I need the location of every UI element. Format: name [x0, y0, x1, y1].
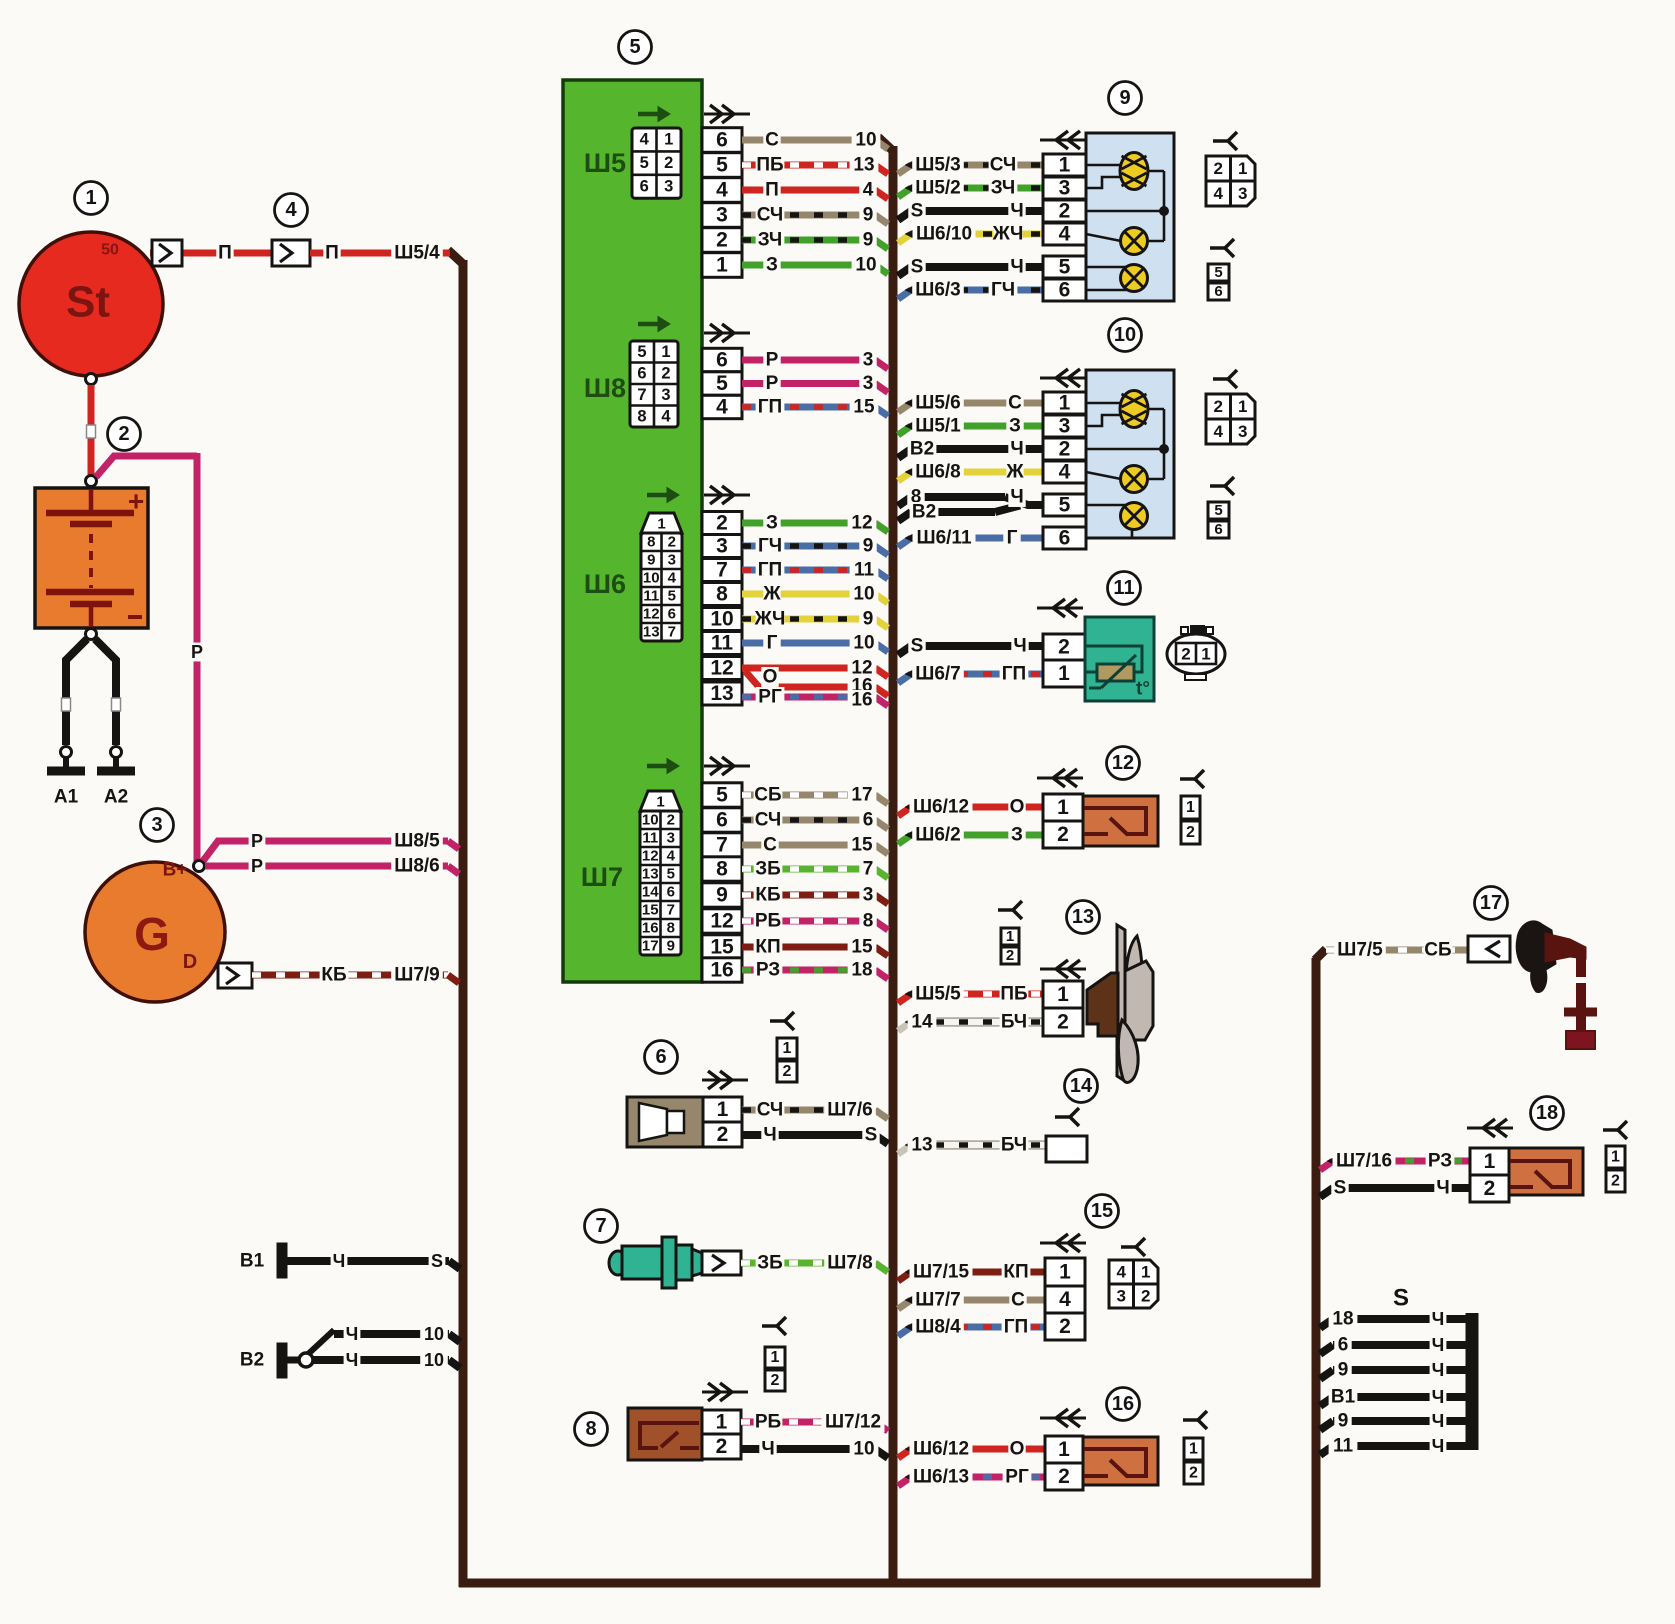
svg-text:РГ: РГ	[1005, 1467, 1029, 1488]
svg-text:РБ: РБ	[755, 911, 781, 932]
label З on wire	[763, 513, 780, 533]
svg-text:3: 3	[863, 373, 874, 394]
label S on wire	[908, 257, 925, 277]
svg-text:ЗБ: ЗБ	[755, 859, 781, 880]
svg-text:3: 3	[1059, 177, 1071, 200]
ground terminal A2	[111, 747, 122, 758]
svg-text:А2: А2	[104, 787, 128, 808]
svg-text:+: +	[128, 486, 144, 517]
label S on wire	[908, 636, 925, 656]
svg-text:2: 2	[1057, 823, 1069, 846]
label Ч on wire	[759, 1439, 776, 1459]
svg-text:ЖЧ: ЖЧ	[992, 224, 1024, 245]
connector 1/2 box right of relay 12	[1181, 796, 1200, 819]
wire Ш5/3 trunk to headlamp 9 pin 1	[898, 165, 911, 174]
label 9 wire number	[859, 205, 876, 225]
svg-text:Г: Г	[1007, 528, 1018, 549]
pin temp sensor pin 2	[1043, 634, 1085, 660]
wire 6 right trunk to S block (black)	[1320, 1345, 1333, 1354]
svg-text:1: 1	[1201, 645, 1210, 664]
label СЧ on wire	[756, 1100, 785, 1120]
svg-text:S: S	[1334, 1178, 1347, 1199]
label circle 6	[645, 1041, 678, 1074]
svg-text:6: 6	[716, 349, 728, 372]
svg-text:Ш5/6: Ш5/6	[915, 393, 961, 414]
label Ш8/6	[391, 856, 443, 876]
label Ш7/8 on wire	[824, 1253, 876, 1273]
label 10 wire number	[852, 130, 881, 150]
label Ш5/6 on wire	[912, 393, 964, 413]
wire З from ECU Ш6 pin 2 to trunk	[742, 520, 875, 527]
svg-text:В1: В1	[240, 1251, 265, 1272]
pin Ш6 ecu-side 13 box	[702, 682, 742, 705]
wire Ш5/5 trunk to fan pin 1 (red/white)	[898, 994, 911, 1003]
svg-text:7: 7	[667, 902, 675, 919]
label S on wire	[862, 1125, 879, 1145]
label 3 wire number	[859, 885, 876, 905]
svg-text:14: 14	[642, 884, 659, 901]
headlamp bulb 2 (component 10)	[1121, 466, 1148, 493]
label circle 13	[1067, 901, 1100, 934]
label circle 18	[1531, 1097, 1564, 1130]
connector on generator D output	[218, 963, 252, 988]
label З colour code	[1006, 416, 1023, 436]
svg-text:КБ: КБ	[321, 965, 346, 986]
pin fan pin 1	[1043, 981, 1083, 1008]
label РГ on wire	[756, 687, 785, 707]
svg-text:St: St	[66, 278, 110, 327]
wire Ш6/3 trunk to headlamp 9 pin 6	[898, 290, 911, 299]
fork connector above component 6	[770, 1019, 785, 1023]
label БЧ colour code	[1000, 1135, 1029, 1155]
svg-text:Ч: Ч	[333, 1251, 346, 1271]
label 7 wire number	[859, 859, 876, 879]
svg-text:2: 2	[783, 1063, 792, 1080]
svg-text:4: 4	[667, 848, 676, 865]
wire Ш5/6 trunk to headlamp 10 pin 1	[898, 403, 911, 412]
svg-text:Ч: Ч	[761, 1439, 774, 1460]
wire Р from ECU Ш8 pin 5 to trunk	[742, 380, 875, 387]
connector Ш8 pin grid	[638, 322, 662, 327]
label РБ on wire	[754, 1412, 783, 1432]
pin fan pin 2	[1043, 1008, 1083, 1036]
label Ш6/7 on wire	[912, 664, 964, 684]
headlamp bulb 3 (component 9)	[1121, 265, 1148, 292]
svg-text:3: 3	[661, 386, 670, 404]
svg-text:6: 6	[716, 129, 728, 152]
label circle 17	[1475, 887, 1508, 920]
svg-text:3: 3	[863, 350, 874, 371]
pin headlamp 9 pin 2	[1043, 200, 1086, 222]
svg-text:ГП: ГП	[1002, 664, 1026, 685]
label 13 on wire	[908, 1135, 937, 1155]
svg-text:5: 5	[1214, 264, 1222, 281]
spark plug 17 (maroon)	[1545, 933, 1586, 962]
svg-text:S: S	[865, 1125, 878, 1146]
svg-text:Ш8/5: Ш8/5	[394, 831, 440, 852]
wire ЖЧ from ECU Ш6 pin 10 to trunk	[742, 616, 875, 623]
svg-text:2: 2	[1058, 636, 1070, 659]
label П on wire (right)	[323, 243, 340, 263]
terminal B1 (black bar)	[277, 1243, 287, 1278]
label О colour code	[1008, 797, 1025, 817]
svg-text:5: 5	[1059, 494, 1071, 517]
label 8 on wire	[907, 487, 924, 507]
label Ч on B2 lower wire	[344, 1351, 361, 1370]
wire П from ECU Ш5 pin 4 to trunk	[742, 187, 875, 194]
wire РБ component 8 pin1 to Ш7/12	[741, 1419, 875, 1426]
wire Ш7/7 trunk to 15 pin 4 (taupe)	[898, 1300, 911, 1309]
component 14 box (empty connector)	[1046, 1136, 1087, 1162]
label О on wire	[761, 667, 778, 687]
svg-text:1: 1	[1057, 796, 1069, 819]
label ПБ colour code	[1000, 984, 1029, 1004]
wire Ш6/7 trunk to temp sensor pin 1 (blue/red)	[898, 674, 911, 683]
label 9 wire number	[859, 230, 876, 250]
connector 1/2 box above component 8	[765, 1347, 785, 1368]
wire 50 output of starter to fuse (red)	[150, 250, 272, 257]
connector Ш5 pin grid	[638, 112, 662, 117]
headlamp bulb 3 (component 10)	[1121, 503, 1148, 530]
wire Ч B2 upper to 10 on trunk (black)	[334, 1330, 449, 1338]
svg-text:1: 1	[1006, 928, 1014, 945]
label ЗБ on wire	[754, 859, 783, 879]
svg-text:11: 11	[1113, 577, 1134, 599]
svg-text:БЧ: БЧ	[1001, 1135, 1027, 1156]
label Ч colour code (18)	[1434, 1178, 1451, 1198]
svg-text:Ж: Ж	[762, 584, 781, 605]
svg-text:9: 9	[863, 609, 874, 630]
svg-text:4: 4	[1117, 1263, 1127, 1282]
svg-text:9: 9	[716, 884, 728, 907]
svg-text:3: 3	[151, 814, 162, 836]
pin relay 12 pin 2	[1043, 821, 1083, 848]
label Р on wire	[763, 374, 780, 394]
double arrow component 18	[1467, 1127, 1513, 1130]
connector Ш7 pin grid	[647, 764, 671, 769]
wire ЗБ from ECU Ш7 pin 8 to trunk	[742, 866, 875, 873]
pin Ш5 ecu-side 3 box	[702, 203, 742, 228]
pin Ш6 ecu-side 7 box	[702, 559, 742, 582]
svg-text:Ш6: Ш6	[584, 569, 626, 599]
label Г colour code	[1003, 528, 1020, 548]
svg-text:5: 5	[1059, 256, 1071, 279]
buzzer 6 body	[627, 1097, 703, 1147]
svg-text:3: 3	[863, 885, 874, 906]
svg-text:ПБ: ПБ	[1000, 984, 1027, 1005]
svg-text:1: 1	[85, 187, 96, 209]
svg-text:2: 2	[1484, 1177, 1496, 1200]
connector Ш6 pin grid	[647, 493, 671, 498]
wire В2 trunk to headlamp 10 pin 5 (black merge)	[898, 512, 911, 521]
svg-text:БЧ: БЧ	[1001, 1012, 1027, 1033]
svg-text:4: 4	[1059, 461, 1071, 484]
svg-text:О: О	[1010, 797, 1025, 818]
svg-text:Ш6/2: Ш6/2	[915, 825, 961, 846]
svg-text:2: 2	[1058, 1465, 1070, 1488]
label Ч on S wire 6	[1430, 1336, 1447, 1355]
svg-text:9: 9	[863, 536, 874, 557]
connector 5/6 boxes right of headlamp 10	[1208, 502, 1229, 519]
generator G (3)	[85, 862, 225, 1002]
pin Ш7 ecu-side 12 box	[702, 909, 742, 933]
fork connector right of relay 12	[1180, 777, 1195, 781]
label circle 3 (generator)	[141, 809, 174, 842]
label 18 on S wire	[1329, 1309, 1358, 1329]
label ГЧ colour code	[989, 280, 1018, 300]
fork connector right of headlamp 9 upper	[1213, 139, 1228, 143]
headlamp high/low beam dual-filament bulb (component 9)	[1120, 153, 1148, 190]
wire Ш6/12 trunk to relay 16 pin 1 (red)	[898, 1449, 911, 1458]
connector on oxygen sensor	[702, 1251, 741, 1275]
svg-text:Ш5/3: Ш5/3	[915, 155, 961, 176]
label С colour code	[1006, 393, 1023, 413]
pin Ш5 ecu-side 5 box	[702, 153, 742, 178]
pin temp sensor pin 1	[1043, 660, 1085, 687]
label Ш7/6 on wire	[824, 1100, 876, 1120]
wire СБ from ECU Ш7 pin 5 to trunk	[742, 792, 875, 799]
svg-text:ГП: ГП	[758, 560, 782, 581]
label Ш7/16 on wire	[1333, 1151, 1396, 1171]
wire main harness trunk right (vertical)	[1312, 958, 1321, 1587]
label БЧ colour code	[1000, 1012, 1029, 1032]
label Ш8/4 on wire	[912, 1317, 964, 1337]
label circle 11	[1108, 572, 1141, 605]
label Ш6/13 on wire	[910, 1467, 973, 1487]
label 10 wire number	[852, 255, 881, 275]
svg-text:П: П	[765, 180, 779, 201]
temp sensor 11 body (teal)	[1085, 617, 1154, 701]
wire Ч component 8 pin2 to 10	[741, 1445, 875, 1453]
svg-text:6: 6	[1214, 521, 1222, 538]
label РГ colour code	[1003, 1467, 1032, 1487]
label Ч colour code	[1008, 257, 1025, 277]
svg-text:16: 16	[851, 690, 872, 711]
connector 1/2 box above fan	[1001, 928, 1019, 945]
svg-text:1: 1	[661, 343, 670, 361]
svg-text:С: С	[763, 835, 777, 856]
label ЗЧ colour code	[989, 178, 1018, 198]
wire РБ from ECU Ш7 pin 12 to trunk	[742, 918, 875, 925]
svg-text:17: 17	[1480, 892, 1502, 914]
oxygen sensor 7 body	[609, 1251, 627, 1275]
svg-text:12: 12	[643, 606, 660, 623]
svg-text:Ч: Ч	[1010, 487, 1023, 508]
fork connector above component 14	[1055, 1115, 1070, 1119]
label Ш5/3 on wire	[912, 155, 964, 175]
wire Ш7/15 trunk to 15 pin 1 (dark red)	[898, 1272, 911, 1281]
svg-text:1: 1	[783, 1040, 792, 1057]
wire П fuse to harness	[310, 250, 450, 257]
wire Ш6/12 trunk to relay 12 pin 1 (red)	[898, 807, 911, 816]
label РЗ colour code	[1426, 1151, 1455, 1171]
svg-text:2: 2	[1214, 159, 1223, 178]
svg-text:Ш6/12: Ш6/12	[913, 1439, 969, 1460]
wire С from ECU Ш7 pin 7 to trunk	[742, 842, 875, 849]
connector 4 box	[272, 240, 310, 266]
double arrow Ш6 harness side	[704, 494, 750, 497]
label ЗБ on wire	[756, 1253, 785, 1273]
label СЧ on wire	[754, 810, 783, 830]
label Ш6/8 on wire	[912, 462, 964, 482]
label КБ on wire	[754, 885, 783, 905]
svg-text:1: 1	[1189, 1441, 1198, 1458]
svg-text:КП: КП	[1003, 1262, 1028, 1283]
connector on component 17	[1468, 936, 1510, 962]
wire Ч B2 lower to 10 on trunk (black)	[313, 1356, 449, 1364]
svg-text:О: О	[763, 667, 778, 688]
double arrow Ш5 harness side	[704, 113, 750, 116]
svg-text:7: 7	[595, 1215, 606, 1237]
battery 2 (accumulator)	[35, 488, 148, 628]
wire СЧ from ECU Ш7 pin 6 to trunk	[742, 817, 875, 824]
svg-text:3: 3	[668, 552, 676, 569]
label КП on wire	[754, 937, 783, 957]
label 4 wire number	[859, 180, 876, 200]
label Ш5/1 on wire	[912, 416, 964, 436]
label 11 wire number	[850, 560, 879, 580]
pin headlamp 9 pin 3	[1043, 177, 1086, 199]
svg-text:5: 5	[1214, 502, 1222, 519]
label Ш5/4 on wire	[391, 243, 443, 263]
svg-text:2: 2	[661, 364, 670, 382]
svg-text:СЧ: СЧ	[755, 810, 782, 831]
svg-text:КБ: КБ	[755, 885, 780, 906]
label 14 on wire	[908, 1012, 937, 1032]
svg-text:12: 12	[710, 910, 733, 933]
svg-text:ГП: ГП	[758, 397, 782, 418]
svg-text:8: 8	[667, 920, 675, 937]
label КБ on wire	[320, 965, 349, 985]
label Ш6/2 on wire	[912, 825, 964, 845]
label ЗЧ on wire	[756, 230, 785, 250]
pin headlamp 10 pin 3	[1043, 415, 1086, 437]
ground terminal A1	[61, 747, 72, 758]
label Ш6/12 on wire (16)	[910, 1439, 973, 1459]
headlamp housing (component 10)	[1086, 370, 1174, 538]
svg-text:9: 9	[1119, 87, 1130, 109]
label Р on wire	[763, 350, 780, 370]
svg-text:Ш5/2: Ш5/2	[915, 178, 961, 199]
svg-text:1: 1	[1238, 397, 1247, 416]
wire КБ generator D to Ш7/9 (dark red / white)	[252, 972, 448, 979]
svg-text:Ш8: Ш8	[584, 373, 626, 403]
label Ш6/11 on wire	[913, 528, 976, 548]
svg-text:ГЧ: ГЧ	[991, 280, 1015, 301]
svg-text:2: 2	[716, 1435, 728, 1458]
svg-text:2: 2	[1141, 1287, 1150, 1306]
wire Ш7/5 right trunk to component 17 (taupe/white)	[1326, 947, 1468, 954]
headlamp internal wiring (component 9)	[1086, 164, 1121, 167]
svg-text:1: 1	[1059, 154, 1071, 177]
svg-text:15: 15	[853, 397, 875, 418]
wire СЧ component 6 pin1 to Ш7/6	[742, 1107, 875, 1114]
svg-text:2: 2	[771, 1372, 780, 1389]
label ГП on wire	[756, 560, 785, 580]
connector on starter output 50	[152, 240, 182, 266]
svg-text:Ч: Ч	[1432, 1436, 1445, 1456]
wire Ш6/8 trunk to headlamp 10 pin 4	[898, 472, 911, 481]
label Ш7/12 on wire	[822, 1412, 885, 1432]
svg-text:2: 2	[668, 534, 676, 551]
svg-text:Ч: Ч	[1432, 1360, 1445, 1380]
wire Р from ECU Ш8 pin 6 to trunk	[742, 357, 875, 364]
label КП colour code	[1002, 1262, 1031, 1282]
svg-text:Ч: Ч	[1010, 439, 1023, 460]
svg-text:10: 10	[1114, 324, 1136, 346]
double arrow Ш8 harness side	[704, 332, 750, 335]
double arrow component 8	[702, 1391, 748, 1394]
svg-text:4: 4	[668, 570, 677, 587]
pin headlamp 10 pin 4	[1043, 461, 1086, 483]
svg-text:2: 2	[1181, 645, 1190, 664]
svg-text:4: 4	[1214, 422, 1224, 441]
svg-text:РГ: РГ	[758, 687, 782, 708]
svg-text:О: О	[1010, 1439, 1025, 1460]
svg-text:ЗБ: ЗБ	[757, 1253, 783, 1274]
label circle 4 (fuse)	[275, 194, 308, 227]
label S on wire (18)	[1331, 1178, 1348, 1198]
svg-text:S: S	[1393, 1285, 1409, 1312]
relay 18 body	[1509, 1148, 1583, 1195]
svg-text:С: С	[1011, 1290, 1025, 1311]
svg-text:9: 9	[1338, 1411, 1349, 1432]
pin Ш7 ecu-side 6 box	[702, 808, 742, 832]
svg-text:11: 11	[711, 632, 734, 655]
wire ГП from ECU Ш8 pin 4 to trunk	[742, 404, 875, 411]
wire КП from ECU Ш7 pin 15 to trunk	[742, 944, 875, 951]
svg-text:10: 10	[855, 130, 876, 151]
wire О from ECU Ш6 pin 12 to trunk (splits to 12 and 16)	[742, 665, 875, 672]
label З colour code	[1008, 825, 1025, 845]
label З on wire	[763, 255, 780, 275]
wire Г from ECU Ш6 pin 11 to trunk	[742, 640, 875, 647]
svg-text:11: 11	[1333, 1436, 1354, 1457]
svg-text:6: 6	[668, 606, 676, 623]
svg-text:13: 13	[911, 1135, 932, 1156]
label 13 wire number	[850, 155, 879, 175]
svg-text:1: 1	[1059, 1261, 1071, 1284]
pin Ш5 ecu-side 1 box	[702, 253, 742, 278]
svg-text:В2: В2	[240, 1350, 264, 1371]
svg-text:4: 4	[716, 396, 728, 419]
svg-text:Ш6/7: Ш6/7	[915, 664, 961, 685]
svg-text:10: 10	[710, 608, 733, 631]
svg-text:8: 8	[716, 583, 728, 606]
label circle 10	[1109, 319, 1142, 352]
svg-text:Ш6/8: Ш6/8	[915, 462, 961, 483]
svg-text:П: П	[325, 243, 339, 264]
svg-text:Г: Г	[767, 633, 778, 654]
svg-text:10: 10	[424, 1324, 444, 1344]
pin headlamp 10 pin 5	[1043, 494, 1086, 516]
label 9 wire number	[859, 609, 876, 629]
svg-text:З: З	[1011, 825, 1023, 846]
svg-text:14: 14	[1070, 1075, 1093, 1097]
label circle 1 (starter)	[75, 182, 108, 215]
label 16 wire number (branch)	[848, 676, 877, 696]
label Ж on wire	[763, 584, 780, 604]
svg-text:6: 6	[716, 809, 728, 832]
pin Ш5 ecu-side 6 box	[702, 128, 742, 153]
ECU controller block 5 (green)	[563, 80, 702, 982]
pin headlamp 9 pin 1	[1043, 154, 1086, 176]
svg-text:Ш7/9: Ш7/9	[394, 965, 440, 986]
pin component 15 pin 2	[1045, 1313, 1085, 1340]
svg-text:Ш6/12: Ш6/12	[913, 797, 969, 818]
svg-text:Ш7: Ш7	[581, 862, 623, 892]
label Ш8/5	[391, 831, 443, 851]
